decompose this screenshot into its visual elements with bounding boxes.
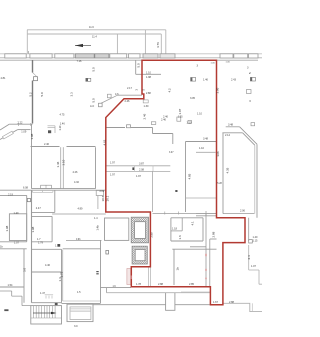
svg-text:2.43: 2.43 [231,78,237,82]
mid-lower room bottom [32,271,62,273]
svg-text:4.6: 4.6 [115,92,119,96]
svg-text:5.0: 5.0 [92,98,96,103]
svg-text:2.88: 2.88 [158,282,164,286]
radiator r2 [191,78,196,82]
right lower wall [249,245,262,284]
hall top wall [31,146,60,148]
small box on ledge [108,94,112,98]
window w11 [234,54,248,58]
svg-text:5.2: 5.2 [29,92,33,97]
svg-text:4.89: 4.89 [78,207,84,211]
window w3 [55,54,74,58]
svg-text:2.85: 2.85 [189,282,195,286]
south inner wall y292.5 [107,292,210,294]
elevator shaft 2 [132,246,147,264]
wall x172.8 [172,134,174,145]
svg-text:10.6: 10.6 [101,195,105,201]
window band top line [0,53,262,55]
wall x185.5 [185,142,187,213]
svg-text:2.88: 2.88 [212,231,216,237]
svg-text:1.30: 1.30 [144,104,150,108]
balcony top rail inner [28,33,162,35]
chamfer inner [243,133,255,145]
svg-text:2.22: 2.22 [18,120,24,124]
svg-text:0.9b: 0.9b [76,239,81,241]
wall inner line right [217,59,259,61]
red unit outline [106,60,245,305]
svg-text:2.46: 2.46 [125,99,131,103]
mid-lower room right wall [61,249,63,302]
balcony divider post [144,30,146,54]
svg-text:2.08: 2.08 [139,168,145,172]
chamfer room left wall [222,133,224,214]
door box under room1a [41,185,52,188]
door box on corridor wall [106,250,109,254]
shaft lobby door frame [149,267,151,287]
wall x209.8 [209,239,211,287]
svg-text:4.26: 4.26 [73,170,79,174]
big lower room bottom [62,302,101,304]
porch steps [70,309,91,312]
window w4 [75,54,94,58]
wall x206 [205,214,207,287]
balcony right inner post [160,34,162,55]
window w1 [5,54,26,58]
svg-text:1.46: 1.46 [56,161,60,167]
red ticks on wall x208.7 [205,254,207,279]
svg-text:1.46: 1.46 [203,78,209,82]
svg-text:1.10: 1.10 [59,125,62,130]
room right wall [95,147,97,188]
small box x151 y121 [151,122,156,125]
wall y141.5 [186,141,217,143]
wall inner line left [0,59,142,61]
svg-text:2.4: 2.4 [247,255,251,260]
svg-text:2.88: 2.88 [146,92,151,95]
svg-text:1.78: 1.78 [136,282,142,286]
chamfer top outer line [226,126,240,128]
radiator r3 [250,77,255,81]
stair treads [31,306,62,318]
wall y239 stub [210,238,217,240]
svg-text:3.0: 3.0 [23,267,27,272]
tick [205,211,207,216]
svg-text:3.87: 3.87 [139,162,145,166]
wall y213.6 right section [196,213,217,215]
ticks on corridor bottom [165,212,179,215]
lower-left flat top wall [0,194,27,196]
svg-text:1.4: 1.4 [94,216,98,220]
step down outline [0,291,31,306]
room row left wall [31,147,33,189]
south wall y304.7 mid [175,304,210,306]
svg-text:1.40: 1.40 [14,211,20,215]
radiator r1 [86,78,91,81]
svg-text:1.10: 1.10 [197,112,203,116]
svg-text:2.46: 2.46 [44,142,50,146]
svg-text:4.2: 4.2 [168,88,172,93]
door box lower-left [27,199,30,202]
corridor left bottom wall [52,213,106,215]
svg-text:1.47: 1.47 [40,291,46,295]
svg-text:1.54: 1.54 [8,283,14,287]
dark dashes on wall [96,271,98,272]
svg-text:2.62: 2.62 [100,190,105,193]
balcony top rail outer [27,29,166,31]
window w12 [249,54,259,58]
svg-text:3.0: 3.0 [74,324,78,328]
dark tick near south wall [55,303,58,305]
window w6 [110,54,127,58]
small box near chamfer [251,123,255,126]
left unit bottom wall [9,123,32,125]
svg-text:11.4: 11.4 [92,35,97,39]
porch outer [67,304,93,321]
ac box [99,103,103,107]
svg-text:1.73: 1.73 [60,271,64,277]
svg-text:1.09: 1.09 [21,129,27,133]
top-mid room bottom [32,211,55,213]
small box right [249,240,253,243]
corridor lines mid [106,165,171,167]
corridor right wall [152,171,154,212]
lower block top wall left [0,248,27,250]
south inner wall y287.6 [101,287,132,289]
svg-text:1.98: 1.98 [30,133,34,139]
svg-text:1.98: 1.98 [31,226,35,232]
big lower room inner left wall [62,250,64,301]
small room near red top : bottom wall [136,73,161,75]
window w2 [30,54,52,58]
wc room mid-right [170,218,172,241]
svg-text:6.08: 6.08 [23,186,29,190]
svg-text:4.76: 4.76 [156,42,160,48]
svg-text:5.0: 5.0 [40,92,44,97]
svg-text:1.07: 1.07 [251,264,257,268]
svg-text:3.48: 3.48 [228,123,234,127]
south wall above stairs [32,302,62,304]
svg-text:7.16: 7.16 [77,59,83,63]
bottom right inner step [251,303,253,311]
south notch [166,293,175,311]
svg-text:4.35: 4.35 [226,167,230,173]
svg-text:3.05: 3.05 [178,117,183,119]
svg-text:1.15: 1.15 [253,239,259,243]
red door tick left lobby [130,276,132,280]
small box x176 y117 [177,117,181,121]
svg-text:16.1: 16.1 [106,195,110,201]
balcony mid post [116,34,118,54]
south wall y304.7 left [93,304,166,306]
lower-left room right wall [23,249,25,303]
svg-text:3.06: 3.06 [216,151,220,157]
corridor bottom wall y240.4 [66,239,102,241]
svg-text:4.81: 4.81 [1,76,7,80]
svg-text:5.28: 5.28 [217,183,222,185]
svg-text:5.0: 5.0 [92,67,96,72]
party wall left dark [32,60,34,124]
window band bottom line [0,57,262,59]
window w7 [143,54,158,58]
svg-text:2.46: 2.46 [163,115,169,119]
door box on party wall [34,77,38,81]
window w5 [95,54,109,58]
wall y249.2 [172,248,216,250]
svg-text:4.1: 4.1 [191,221,195,226]
svg-text:3.48: 3.48 [203,137,209,141]
wall x174 [173,249,175,285]
svg-text:1.98: 1.98 [5,225,9,231]
elevator shaft 1 [131,217,148,243]
gray south wall right of unit [181,291,210,293]
chamfered room right of red: top wall [222,132,242,134]
svg-text:3.06: 3.06 [216,87,220,93]
dimension text labels [0,25,258,328]
lobby inner shading [127,269,131,285]
svg-text:1.97: 1.97 [136,174,142,178]
svg-text:2.47: 2.47 [36,206,42,210]
svg-text:2.14: 2.14 [225,133,231,137]
svg-text:1.6: 1.6 [178,235,182,240]
dimension bracket above corridor [32,190,53,192]
balcony left post [26,30,28,54]
lower block top wall mid [32,248,62,250]
svg-text:1.97: 1.97 [110,161,116,165]
lower-left flat bottom [0,241,27,243]
left unit inner bottom wall [18,129,31,131]
svg-text:1.67: 1.67 [213,300,219,304]
porch inner [70,307,91,320]
chamfer room right wall inner [254,145,256,213]
window w6b [129,54,141,58]
svg-text:1.07: 1.07 [14,241,20,245]
svg-text:4.46: 4.46 [45,263,51,267]
divider wall double [60,147,62,188]
chamfer room right wall outer [256,144,258,218]
small box on wall y127.5 [127,125,131,128]
tick on corridor [134,166,153,172]
svg-text:1b: 1b [176,267,180,271]
svg-text:3.05: 3.05 [190,96,196,100]
svg-text:4.85: 4.85 [187,173,191,179]
svg-text:4.32: 4.32 [74,180,80,184]
door box at corridor junction [96,191,103,196]
wall y198 [186,197,217,199]
svg-text:1.40: 1.40 [253,235,259,239]
wall y133.5 [153,133,173,135]
small box right mid [247,90,252,94]
svg-text:1.10: 1.10 [187,121,193,125]
stairs outline [31,306,62,324]
bathroom lower-left [9,214,26,241]
svg-text:3.3: 3.3 [70,92,74,97]
svg-text:4.62: 4.62 [103,139,107,145]
wall y152.3 [196,151,216,153]
angled exterior wall inner [0,130,18,140]
svg-text:1.98: 1.98 [146,75,152,79]
lower-left room bottom [0,286,24,288]
top-mid room right [54,190,56,212]
svg-text:2.06: 2.06 [240,209,246,213]
small room near red top : left wall [135,60,137,74]
svg-text:1.97: 1.97 [110,173,116,177]
north arrow [75,45,91,47]
step at x152.5 [152,128,154,134]
mid room top wall y127.5 [106,127,125,129]
svg-text:3.10: 3.10 [61,159,65,165]
balcony right outer post [165,30,167,56]
gray diagonal [100,95,117,103]
tick above band [28,51,30,54]
corridor top wall full [0,189,106,191]
svg-text:A.C: A.C [90,104,94,108]
corridor bottom double right [153,213,217,215]
lower-left flat right wall [26,195,28,241]
svg-text:1.07: 1.07 [178,108,182,114]
angled exterior wall outer [0,124,9,130]
svg-text:4.75: 4.75 [60,113,66,117]
window w10 [220,54,233,58]
svg-text:3.07: 3.07 [169,152,174,154]
window on angled wall [3,131,14,139]
svg-text:2.46: 2.46 [143,113,147,119]
bottom right outline [223,303,262,311]
rooms bottom wall [32,188,96,190]
stair arrow [33,312,54,314]
left unit side wall stub [31,124,33,146]
mid room2 top [32,215,53,217]
svg-text:1.10: 1.10 [199,146,205,150]
svg-text:1.4b: 1.4b [95,225,99,231]
gray ledge line y95 [118,94,143,96]
lower block top wall right [63,248,101,250]
svg-text:1.79: 1.79 [38,241,44,245]
wall y246.8 [190,246,206,248]
corridor wall x100.5 [100,241,102,304]
svg-text:2.17: 2.17 [127,86,133,90]
right mini wall x248.7 [248,218,250,241]
mid column wall [31,190,33,303]
svg-text:11.6: 11.6 [89,25,94,29]
mid room2 bottom [32,241,53,243]
chamfer outer [240,127,257,144]
svg-text:1.18: 1.18 [172,227,178,231]
door box below red corner [143,100,148,103]
mid room2 right [51,216,53,241]
svg-text:1.5b: 1.5b [55,244,61,248]
svg-text:2.19: 2.19 [8,193,14,197]
stair dim ticks [45,295,53,299]
room below corridor mid [105,218,129,240]
svg-text:1.46: 1.46 [60,122,66,126]
svg-text:5.0: 5.0 [136,63,140,68]
small box x188 y120 [188,120,191,123]
dark mark bottom left [4,309,8,311]
window w8 [160,54,175,58]
jog x106.5 [106,288,108,293]
dark tick x176 [175,190,177,192]
svg-text:1.10: 1.10 [146,71,152,75]
svg-text:1.5: 1.5 [77,290,81,294]
red top horizontal [142,59,217,61]
svg-text:2.88: 2.88 [229,300,235,304]
